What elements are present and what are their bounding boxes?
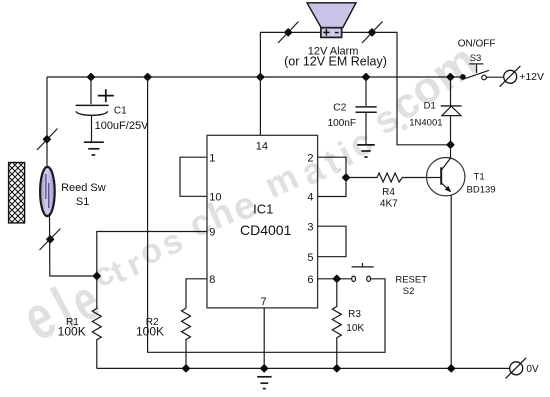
ground below C2 — [357, 144, 375, 146]
node speaker left terminal — [285, 29, 292, 36]
reed switch S1 — [40, 167, 55, 216]
svg-text:C2: C2 — [333, 102, 347, 114]
svg-text:0V: 0V — [526, 364, 539, 375]
resistor R4 — [343, 174, 350, 181]
switch S3 ON/OFF — [447, 74, 454, 81]
svg-text:RESET: RESET — [395, 275, 427, 286]
magnet (hatched block) — [9, 163, 25, 223]
wire pin3-pin5 loop — [318, 226, 346, 257]
svg-text:6: 6 — [307, 274, 313, 286]
svg-text:14: 14 — [256, 141, 268, 153]
svg-text:8: 8 — [209, 274, 215, 286]
svg-text:100uF/25V: 100uF/25V — [95, 120, 149, 132]
svg-text:10K: 10K — [346, 323, 364, 334]
wire below reed switch to R1 junction — [50, 213, 97, 276]
capacitor C1 — [88, 74, 95, 81]
switch S2 RESET — [352, 276, 356, 281]
svg-text:100K: 100K — [136, 324, 164, 338]
svg-text:7: 7 — [260, 296, 266, 308]
wire top positive rail — [47, 76, 463, 78]
svg-text:Reed Sw: Reed Sw — [61, 182, 106, 194]
resistor R3 — [332, 279, 341, 369]
resistor R2 — [182, 308, 191, 368]
wire S3 to +12V terminal — [486, 76, 504, 78]
wire pin 9 to junction — [97, 232, 207, 277]
svg-text:4: 4 — [307, 192, 313, 204]
node connection point lower reed terminal — [47, 236, 54, 243]
wire emitter to ground rail — [450, 195, 452, 368]
node connection point upper reed terminal — [44, 136, 51, 143]
C1 polarity plus mark — [98, 95, 114, 97]
svg-text:S2: S2 — [403, 286, 415, 297]
wire speaker branch — [257, 74, 264, 81]
wire bottom ground rail — [97, 367, 510, 369]
svg-text:5: 5 — [307, 252, 313, 264]
speaker LS1 driver box — [321, 28, 342, 38]
svg-text:C1: C1 — [114, 106, 127, 117]
capacitor C2 — [363, 74, 370, 81]
node emitter wire to rail — [448, 365, 455, 372]
wire S2 return loop to +rail — [144, 74, 151, 81]
terminal +12V — [504, 70, 517, 83]
wire junction to transistor collector — [450, 145, 452, 159]
wire pin6 to S2 — [318, 278, 352, 280]
svg-text:3: 3 — [307, 221, 313, 233]
ground below C1 — [84, 141, 104, 143]
wire pin8 to R2 — [186, 279, 207, 309]
svg-text:(or 12V EM Relay): (or 12V EM Relay) — [284, 55, 387, 69]
transistor T1 — [427, 158, 465, 196]
wire pin 14 to rail — [259, 77, 261, 135]
wire left branch vertical — [46, 77, 48, 170]
svg-text:R4: R4 — [382, 187, 395, 198]
ground below pin7 rail — [257, 376, 271, 378]
svg-text:R3: R3 — [348, 309, 361, 320]
wire speaker right to D1 anode junction — [342, 32, 451, 144]
svg-text:1: 1 — [209, 152, 215, 164]
svg-text:4K7: 4K7 — [380, 198, 398, 209]
svg-text:T1: T1 — [474, 171, 485, 182]
svg-text:BD139: BD139 — [467, 185, 496, 196]
wire pin1-pin10 feedback loop — [180, 157, 207, 196]
node speaker right terminal — [369, 29, 376, 36]
node D1/collector junction — [447, 142, 454, 149]
speaker LS1 horn — [307, 3, 356, 28]
svg-text:S1: S1 — [76, 196, 89, 208]
diode D1 — [450, 77, 452, 106]
wire pin2-pin4 loop — [318, 157, 346, 196]
terminal 0V — [510, 362, 523, 375]
resistor R1 — [92, 276, 101, 368]
IC U1 CD4001 body — [207, 135, 318, 308]
node junction reed/pin9/R1 — [94, 273, 101, 280]
svg-text:+12V: +12V — [519, 71, 544, 83]
